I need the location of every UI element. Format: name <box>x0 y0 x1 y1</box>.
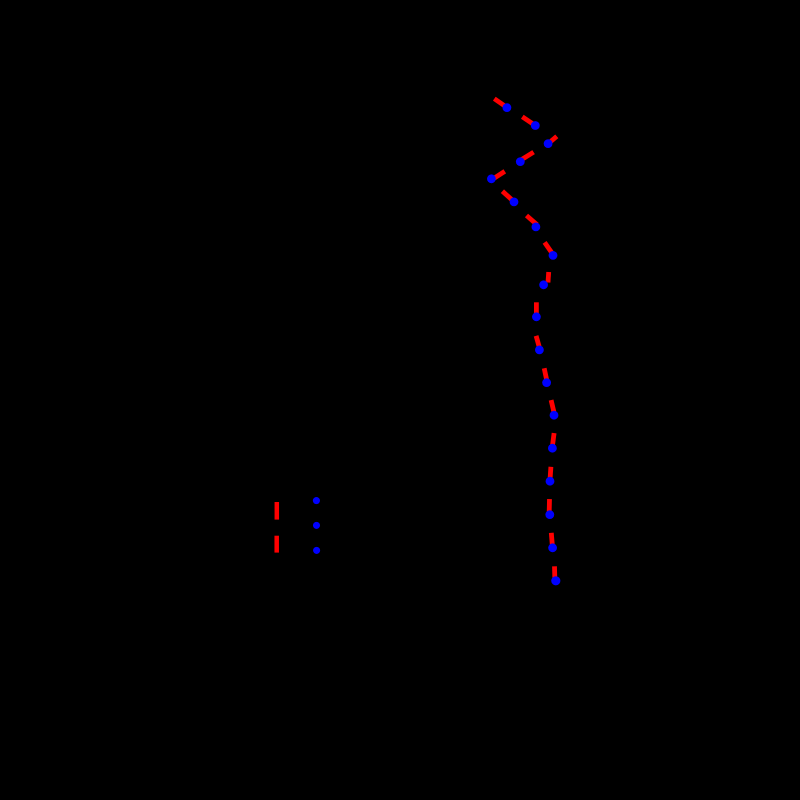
red dash s9 <box>546 272 552 283</box>
blue marker d18 <box>551 576 560 585</box>
red dash s4 <box>521 152 534 160</box>
red dash s14 <box>553 433 555 445</box>
red dash s13 <box>551 400 554 412</box>
blue marker a3 (left cluster) <box>313 547 320 554</box>
blue marker d14 <box>548 444 557 453</box>
red dash g2 (left cluster) <box>274 536 279 553</box>
red dash s7 <box>527 216 538 225</box>
red dash s6 <box>502 191 514 202</box>
red dash s5 <box>493 171 505 179</box>
blue marker d13 <box>550 411 559 420</box>
red dash s16 <box>547 499 552 511</box>
blue marker d11 <box>535 346 544 355</box>
blue marker d15 <box>546 477 555 486</box>
red dash s15 <box>548 467 554 479</box>
blue marker d2 <box>531 121 540 130</box>
blue marker d7 <box>532 223 541 232</box>
blue marker d5 <box>487 174 496 183</box>
red dash s1 <box>494 99 508 109</box>
red dash s12 <box>544 368 546 379</box>
blue marker d9 <box>539 280 548 289</box>
blue marker a2 (left cluster) <box>313 522 320 529</box>
blue marker d17 <box>548 543 557 552</box>
blue marker d6 <box>510 198 519 207</box>
red dash s17 <box>551 533 552 545</box>
blue marker d16 <box>545 510 554 519</box>
blue marker d8 <box>549 251 558 260</box>
blue marker d1 <box>503 103 512 112</box>
red dash s8 <box>545 242 553 253</box>
red dash s10 <box>534 302 539 314</box>
red dash s2 <box>522 117 536 126</box>
blue marker d4 <box>516 157 525 166</box>
blue marker a1 (left cluster) <box>313 497 320 504</box>
blue marker d3 <box>544 139 553 148</box>
red dash s11 <box>536 336 539 347</box>
red dash s3 <box>550 136 557 142</box>
blue marker d10 <box>532 312 541 321</box>
blue marker d12 <box>542 378 551 387</box>
red dash g1 (left cluster) <box>275 502 280 520</box>
red dash s18 <box>552 566 557 578</box>
